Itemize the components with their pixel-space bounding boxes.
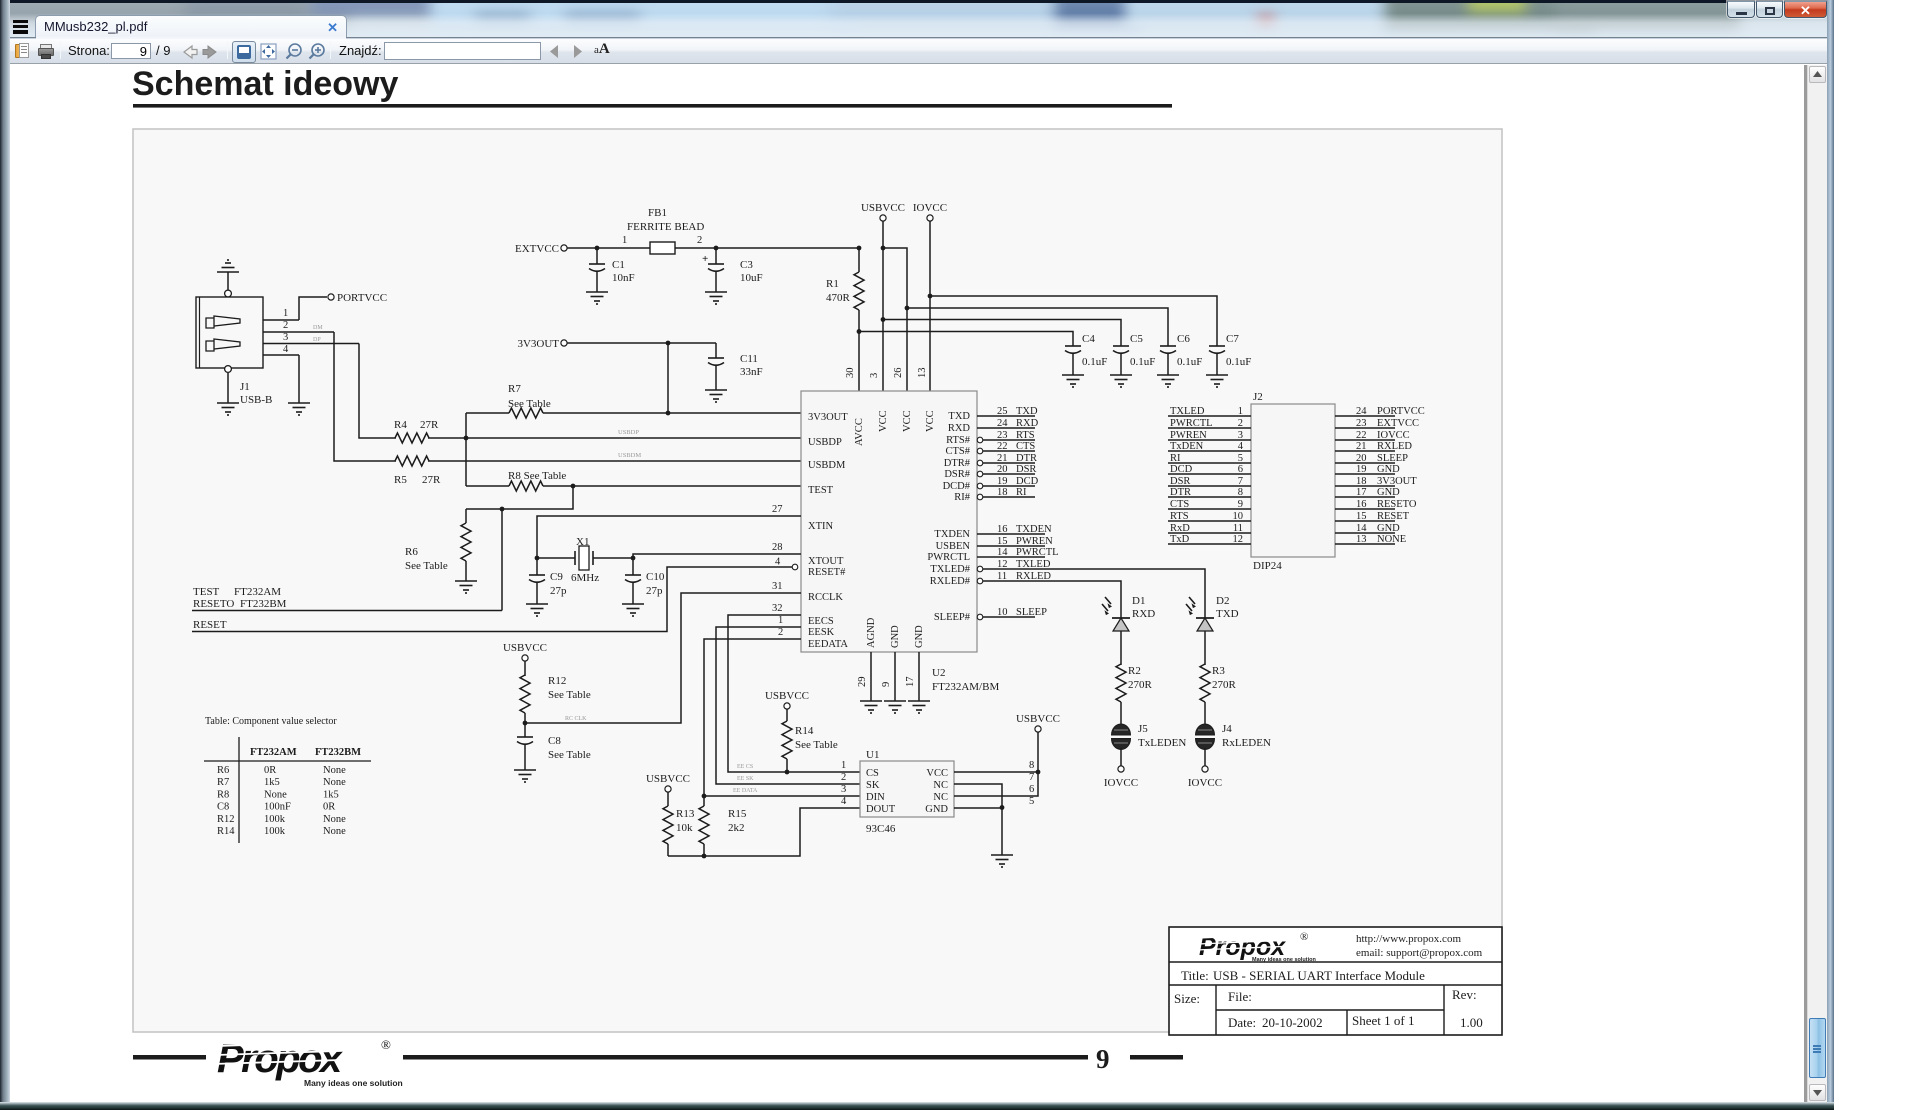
- rail VCC26 to C6: [905, 306, 1168, 346]
- U2 right pin names: [927, 411, 970, 623]
- svg-text:1k5: 1k5: [323, 789, 339, 800]
- svg-text:1.00: 1.00: [1460, 1015, 1483, 1030]
- capacitor C10 27p: [625, 556, 665, 604]
- ground (below C8): [514, 770, 536, 782]
- svg-text:D1: D1: [1132, 595, 1145, 607]
- svg-text:TXLED: TXLED: [1016, 559, 1051, 570]
- svg-text:PWREN: PWREN: [1016, 536, 1053, 547]
- pin 3 J1: [263, 332, 359, 344]
- svg-text:None: None: [323, 765, 346, 776]
- svg-text:EE DATA: EE DATA: [733, 788, 758, 794]
- svg-text:CTS#: CTS#: [945, 446, 970, 457]
- title block frame: [1169, 927, 1502, 1035]
- resistor R2 270R: [1116, 664, 1153, 724]
- svg-text:93C46: 93C46: [866, 823, 896, 835]
- net RESETO / FT232BM: [192, 598, 502, 611]
- svg-text:GND: GND: [914, 625, 925, 648]
- svg-text:29: 29: [857, 677, 868, 688]
- svg-text:CS: CS: [866, 768, 879, 779]
- svg-text:See Table: See Table: [548, 749, 591, 761]
- U2 ground pins wires: [871, 652, 919, 701]
- capacitor C4 0.1uF: [1065, 333, 1107, 375]
- document heading "Schemat ideowy": [132, 65, 1172, 108]
- U2 pin 11 net RXLED wire to D1: [977, 571, 1121, 594]
- wire DP (J1 pin3 down to R4 row): [359, 344, 379, 439]
- svg-text:RXLED#: RXLED#: [930, 576, 971, 587]
- title block date row: [1228, 1013, 1483, 1030]
- svg-text:TXD: TXD: [1016, 406, 1038, 417]
- J2 pin 15 RESET: [1335, 511, 1410, 522]
- U1 left pin numbers: [841, 760, 847, 807]
- svg-text:R14: R14: [795, 725, 814, 737]
- U2 pin 14 net PWRCTL: [977, 547, 1059, 558]
- svg-text:SLEEP: SLEEP: [1016, 607, 1047, 618]
- svg-text:10k: 10k: [676, 822, 693, 834]
- svg-text:None: None: [323, 826, 346, 837]
- title block web/email: [1356, 933, 1483, 959]
- svg-text:1k5: 1k5: [264, 777, 280, 788]
- svg-text:12: 12: [997, 559, 1008, 570]
- svg-text:18: 18: [997, 487, 1008, 498]
- ground (below J1): [217, 373, 239, 415]
- window top dark edge: [0, 0, 1834, 3]
- svg-text:C8: C8: [217, 802, 229, 813]
- svg-text:VCC: VCC: [926, 768, 948, 779]
- J2 pin 6 DCD: [1168, 464, 1251, 475]
- pin 4 J1: [263, 344, 299, 355]
- ground (below C11): [705, 390, 727, 402]
- svg-text:R5: R5: [394, 474, 407, 486]
- svg-text:RESET#: RESET#: [808, 567, 846, 578]
- rail AVCC to C4: [857, 329, 1073, 346]
- rail USBVCC to C5: [881, 317, 1121, 346]
- ferrite bead FB1: [622, 207, 859, 254]
- svg-text:FT232AM: FT232AM: [234, 586, 281, 598]
- svg-text:TXD: TXD: [948, 411, 970, 422]
- svg-text:RESET: RESET: [193, 619, 227, 631]
- svg-text:1: 1: [778, 615, 783, 626]
- U2 bottom pin numbers 29 9 17: [857, 677, 916, 688]
- U2 pin 25 net TXD: [977, 406, 1038, 417]
- svg-text:270R: 270R: [1212, 679, 1237, 691]
- svg-text:Size:: Size:: [1174, 991, 1200, 1006]
- svg-text:27R: 27R: [420, 419, 439, 431]
- svg-text:Rev:: Rev:: [1452, 987, 1477, 1002]
- svg-text:J4: J4: [1222, 723, 1232, 735]
- svg-text:25: 25: [997, 406, 1008, 417]
- svg-text:USB - SERIAL UART Interface Mo: USB - SERIAL UART Interface Module: [1213, 968, 1425, 983]
- svg-text:RI#: RI#: [954, 492, 971, 503]
- J2 pin 5 RI: [1168, 453, 1251, 464]
- svg-text:USBVCC: USBVCC: [765, 690, 809, 702]
- svg-text:FERRITE BEAD: FERRITE BEAD: [627, 221, 704, 233]
- svg-text:USBVCC: USBVCC: [861, 202, 905, 214]
- svg-text:DSR#: DSR#: [944, 469, 970, 480]
- wire R8 junction down to R6 row: [466, 486, 573, 509]
- svg-text:33nF: 33nF: [740, 366, 763, 378]
- svg-text:C5: C5: [1130, 333, 1143, 345]
- svg-text:DSR: DSR: [1016, 464, 1036, 475]
- U2 pin4 number: [775, 557, 781, 568]
- J2 pin 23 EXTVCC: [1335, 418, 1419, 429]
- ground (below C9): [526, 604, 548, 616]
- scrollbar: [1804, 65, 1808, 1102]
- svg-text:4: 4: [841, 796, 847, 807]
- svg-text:IOVCC: IOVCC: [1104, 777, 1138, 789]
- svg-text:10nF: 10nF: [612, 272, 635, 284]
- ground (U2 AGND pin29): [860, 701, 882, 713]
- svg-text:USBDP: USBDP: [618, 429, 639, 436]
- svg-text:R1: R1: [826, 278, 839, 290]
- svg-text:C4: C4: [1082, 333, 1095, 345]
- svg-text:27p: 27p: [646, 585, 663, 597]
- svg-text:20-10-2002: 20-10-2002: [1262, 1015, 1323, 1030]
- node PORTVCC: [299, 292, 387, 320]
- svg-text:C10: C10: [646, 571, 665, 583]
- U2 left pin names: [808, 412, 848, 650]
- svg-text:C6: C6: [1177, 333, 1190, 345]
- svg-text:FB1: FB1: [648, 207, 667, 219]
- U2 pin 18 net RI: [977, 487, 1035, 500]
- net label USBDP: [618, 429, 639, 436]
- tab: [35, 15, 347, 38]
- svg-text:RXD: RXD: [948, 423, 971, 434]
- svg-text:1: 1: [841, 760, 846, 771]
- svg-text:VCC: VCC: [902, 410, 913, 432]
- U1 pin8 wire to USBVCC: [954, 760, 1040, 774]
- svg-text:10: 10: [997, 607, 1008, 618]
- ground (below C3): [705, 292, 727, 304]
- svg-text:RXD: RXD: [1132, 608, 1155, 620]
- svg-text:TxLEDEN: TxLEDEN: [1138, 737, 1186, 749]
- svg-text:22: 22: [997, 441, 1008, 452]
- node USBVCC (R13): [646, 773, 690, 806]
- ground (U2 GND pin9): [884, 701, 906, 713]
- J2 pin 14 GND: [1335, 523, 1400, 534]
- toolbar icons: [15, 43, 30, 59]
- jumper J5 TxLEDEN: [1112, 723, 1187, 766]
- footer rule segments: [133, 1055, 1183, 1060]
- svg-text:0.1uF: 0.1uF: [1177, 356, 1202, 368]
- U2 pin 16 net TXDEN: [977, 524, 1052, 535]
- svg-text:2k2: 2k2: [728, 822, 745, 834]
- svg-text:U2: U2: [932, 667, 945, 679]
- U2 pin 22 net CTS: [977, 441, 1035, 454]
- schematic frame: [133, 129, 1502, 1032]
- page number 9: [1096, 1044, 1110, 1074]
- svg-text:2: 2: [841, 772, 846, 783]
- U2 pin 15 net PWREN: [977, 536, 1053, 547]
- capacitor C8 (See Table): [517, 735, 591, 770]
- svg-text:R13: R13: [676, 808, 695, 820]
- capacitor C11 33nF: [708, 343, 763, 390]
- hamburger menu icon: [0, 0, 1914, 1]
- svg-text:DTR: DTR: [1016, 453, 1037, 464]
- resistor R7 (See Table): [466, 383, 801, 418]
- svg-text:None: None: [264, 789, 287, 800]
- svg-text:6MHz: 6MHz: [571, 572, 599, 584]
- svg-text:3V3OUT: 3V3OUT: [517, 338, 559, 350]
- jumper J4 RxLEDEN: [1196, 723, 1271, 766]
- svg-text:RCCLK: RCCLK: [808, 592, 843, 603]
- svg-text:0R: 0R: [323, 802, 335, 813]
- svg-text:NC: NC: [933, 792, 948, 803]
- svg-text:R6: R6: [217, 765, 229, 776]
- wire XTIN (pin27): [537, 504, 801, 558]
- svg-text:®: ®: [381, 1037, 391, 1052]
- svg-text:26: 26: [893, 368, 904, 379]
- svg-text:GND: GND: [890, 625, 901, 648]
- net label USBDM: [618, 452, 641, 459]
- svg-text:R2: R2: [1128, 665, 1141, 677]
- capacitor C9 27p: [529, 556, 567, 604]
- svg-text:15: 15: [997, 536, 1008, 547]
- U2 pin 23 net RTS: [977, 430, 1035, 443]
- node IOVCC (J5): [1104, 766, 1138, 789]
- svg-text:EESK: EESK: [808, 627, 835, 638]
- wire DM (J1 pin2 down to R5 row): [334, 332, 379, 461]
- table: component value selector: [204, 716, 371, 843]
- svg-text:J5: J5: [1138, 723, 1148, 735]
- svg-text:FT232BM: FT232BM: [240, 598, 287, 610]
- pin 2 J1: [263, 320, 334, 332]
- svg-text:1: 1: [283, 308, 288, 319]
- svg-text:10uF: 10uF: [740, 272, 763, 284]
- junction on TEST row: [571, 484, 576, 489]
- connector J1 USB-B: [196, 290, 272, 406]
- svg-text:USB-B: USB-B: [240, 394, 272, 406]
- svg-text:24: 24: [997, 418, 1008, 429]
- svg-text:EE SK: EE SK: [737, 776, 754, 782]
- U1 pin5 wire to ground: [954, 796, 1034, 855]
- svg-text:NC: NC: [933, 780, 948, 791]
- svg-text:3: 3: [869, 373, 880, 378]
- title block title row: [1181, 968, 1425, 983]
- svg-text:http://www.propox.com: http://www.propox.com: [1356, 933, 1461, 945]
- node USBVCC (top): [861, 202, 905, 391]
- ground (below C10): [622, 604, 644, 616]
- svg-text:Schemat ideowy: Schemat ideowy: [132, 65, 399, 103]
- desktop background strip behind window title bar: [0, 0, 1834, 38]
- svg-text:Table: Component value selecto: Table: Component value selector: [205, 716, 337, 727]
- svg-text:R8 See Table: R8 See Table: [508, 470, 566, 482]
- svg-text:27: 27: [772, 504, 783, 515]
- toolbar: [10, 38, 1827, 64]
- svg-text:11: 11: [997, 571, 1007, 582]
- J2 pin 12 TxD: [1168, 534, 1251, 545]
- crystal X1 6MHz: [537, 536, 633, 584]
- wire vertical joining R7/R4/R8 rows: [464, 413, 469, 486]
- J2 pin 10 RTS: [1168, 511, 1251, 522]
- U1 pin7 wire: [954, 772, 1034, 807]
- svg-text:1: 1: [622, 235, 627, 246]
- svg-text:TXDEN: TXDEN: [1016, 524, 1052, 535]
- resistor R14 (See Table): [782, 721, 838, 774]
- Propox logo (title block): [1196, 931, 1317, 963]
- junction dots on VCC rail: [857, 246, 886, 251]
- svg-text:DCD: DCD: [1016, 476, 1039, 487]
- wire EECS (pin32) to U1 CS: [728, 603, 860, 772]
- svg-text:R3: R3: [1212, 665, 1225, 677]
- svg-text:C8: C8: [548, 735, 561, 747]
- svg-text:EE CS: EE CS: [737, 764, 753, 770]
- svg-text:100k: 100k: [264, 826, 286, 837]
- title block size/file/rev: [1174, 987, 1477, 1006]
- resistor R6 (See Table): [405, 509, 471, 581]
- U2 pin 19 net DCD: [977, 476, 1038, 489]
- svg-text:See Table: See Table: [548, 689, 591, 701]
- svg-text:R7: R7: [508, 383, 521, 395]
- svg-text:J2: J2: [1253, 391, 1263, 403]
- svg-text:Many ideas one solution: Many ideas one solution: [304, 1078, 403, 1088]
- svg-text:100k: 100k: [264, 814, 286, 825]
- svg-text:0.1uF: 0.1uF: [1130, 356, 1155, 368]
- J2 pin 22 IOVCC: [1335, 430, 1410, 441]
- J2 pin 9 CTS: [1168, 499, 1251, 510]
- J2 pin 7 DSR: [1168, 476, 1251, 487]
- svg-text:J1: J1: [240, 381, 250, 393]
- svg-text:Date:: Date:: [1228, 1015, 1256, 1030]
- svg-text:20: 20: [997, 464, 1008, 475]
- svg-text:Many ideas one solution: Many ideas one solution: [1252, 957, 1317, 963]
- svg-text:DCD#: DCD#: [943, 481, 971, 492]
- rail IOVCC to C7: [928, 294, 1217, 346]
- svg-text:DIN: DIN: [866, 792, 885, 803]
- svg-text:USBVCC: USBVCC: [503, 642, 547, 654]
- svg-text:7: 7: [1029, 772, 1034, 783]
- resistor R1 470R: [826, 248, 864, 391]
- J2 pin 11 RxD: [1168, 523, 1251, 534]
- svg-text:EEDATA: EEDATA: [808, 639, 848, 650]
- svg-text:0R: 0R: [264, 765, 276, 776]
- svg-text:VCC: VCC: [878, 410, 889, 432]
- U2 pin 12 net TXLED wire to D2: [977, 559, 1205, 594]
- ground (below U1): [991, 855, 1013, 867]
- node USBVCC (R12): [503, 642, 547, 676]
- svg-text:SK: SK: [866, 780, 880, 791]
- svg-text:RxLEDEN: RxLEDEN: [1222, 737, 1271, 749]
- svg-text:RTS: RTS: [1016, 430, 1035, 441]
- svg-text:R14: R14: [217, 826, 235, 837]
- svg-text:2: 2: [283, 320, 288, 331]
- node USBVCC (U1): [1016, 713, 1060, 772]
- svg-text:14: 14: [997, 547, 1008, 558]
- svg-text:21: 21: [997, 453, 1008, 464]
- svg-text:27R: 27R: [422, 474, 441, 486]
- IC U2 FT232AM/BM body: [801, 391, 999, 693]
- svg-text:0.1uF: 0.1uF: [1226, 356, 1251, 368]
- svg-text:13: 13: [917, 368, 928, 379]
- node IOVCC (J4): [1188, 766, 1222, 789]
- svg-text:16: 16: [997, 524, 1008, 535]
- J2 pin 19 GND: [1335, 464, 1400, 475]
- svg-text:EXTVCC: EXTVCC: [515, 243, 559, 255]
- svg-text:RXD: RXD: [1016, 418, 1039, 429]
- ground (U2 GND pin17): [908, 701, 930, 713]
- svg-text:XTIN: XTIN: [808, 521, 833, 532]
- svg-text:RI: RI: [1016, 487, 1027, 498]
- wire EEDATA (pin2) to U1 DIN: [704, 627, 860, 796]
- svg-text:R12: R12: [217, 814, 235, 825]
- resistor R12 (See Table): [520, 675, 591, 737]
- svg-text:Title:: Title:: [1181, 968, 1209, 983]
- svg-text:DIP24: DIP24: [1253, 560, 1282, 572]
- svg-text:C7: C7: [1226, 333, 1239, 345]
- svg-text:DP: DP: [313, 337, 321, 343]
- LED D2 TXD: [1186, 594, 1239, 665]
- resistor R3 270R: [1200, 664, 1237, 724]
- U1 pin names: [866, 768, 948, 815]
- svg-text:C1: C1: [612, 259, 625, 271]
- svg-text:CTS: CTS: [1016, 441, 1035, 452]
- J2 pin 3 PWREN: [1168, 430, 1251, 441]
- wire RCCLK (pin31): [525, 581, 801, 723]
- ground (below C6): [1157, 375, 1179, 387]
- svg-text:TXLED#: TXLED#: [930, 564, 970, 575]
- svg-text:USBEN: USBEN: [936, 541, 971, 552]
- svg-text:0.1uF: 0.1uF: [1082, 356, 1107, 368]
- svg-text:3V3OUT: 3V3OUT: [808, 412, 848, 423]
- svg-text:None: None: [323, 777, 346, 788]
- J2 pin 4 TxDEN: [1168, 441, 1251, 452]
- svg-text:C3: C3: [740, 259, 753, 271]
- LED D1 RXD: [1102, 594, 1155, 665]
- Propox logo (footer): [213, 1037, 403, 1088]
- svg-text:470R: 470R: [826, 292, 851, 304]
- J2 pin 17 GND: [1335, 487, 1400, 498]
- svg-text:31: 31: [772, 581, 783, 592]
- svg-text:2: 2: [697, 235, 702, 246]
- svg-text:Sheet 1 of 1: Sheet 1 of 1: [1352, 1013, 1414, 1028]
- svg-text:®: ®: [1300, 931, 1308, 943]
- U1 pin6 wire to USBVCC: [954, 772, 1038, 796]
- svg-text:30: 30: [845, 368, 856, 379]
- svg-text:VCC: VCC: [925, 410, 936, 432]
- svg-text:RXLED: RXLED: [1016, 571, 1051, 582]
- svg-text:R15: R15: [728, 808, 747, 820]
- U2 top pin labels AVCC VCC VCC VCC: [854, 410, 936, 446]
- svg-text:+: +: [702, 253, 708, 265]
- J2 pin 24 PORTVCC: [1335, 406, 1425, 417]
- svg-text:23: 23: [997, 430, 1008, 441]
- svg-text:19: 19: [997, 476, 1008, 487]
- U2 pin 10 net SLEEP: [977, 607, 1047, 620]
- svg-text:TXDEN: TXDEN: [934, 529, 970, 540]
- wire R13/R15 bottoms to U1 DOUT: [668, 808, 860, 858]
- resistor R8 (See Table): [466, 470, 801, 491]
- svg-text:C11: C11: [740, 353, 758, 365]
- wire 3V3OUT down to pin6 row: [666, 341, 671, 416]
- svg-text:3: 3: [841, 784, 846, 795]
- svg-text:32: 32: [772, 603, 783, 614]
- svg-text:USBDM: USBDM: [618, 452, 641, 459]
- svg-text:DM: DM: [313, 325, 323, 331]
- J2 pin 13 NONE: [1335, 534, 1406, 545]
- svg-text:4: 4: [775, 557, 781, 568]
- svg-text:TEST: TEST: [193, 586, 220, 598]
- connector J2 DIP24 body: [1251, 391, 1335, 572]
- svg-text:6: 6: [1029, 784, 1034, 795]
- wire pin4 to ground: [288, 355, 310, 415]
- J2 pin 2 PWRCTL: [1168, 418, 1251, 429]
- node EXTVCC: [515, 243, 650, 255]
- svg-text:FT232BM: FT232BM: [315, 747, 361, 758]
- svg-text:9: 9: [1096, 1044, 1110, 1074]
- U2 RESET# input bubble: [792, 564, 798, 570]
- wire XTOUT (pin28): [633, 542, 801, 558]
- svg-text:270R: 270R: [1128, 679, 1153, 691]
- J2 pin 1 TXLED: [1168, 406, 1251, 417]
